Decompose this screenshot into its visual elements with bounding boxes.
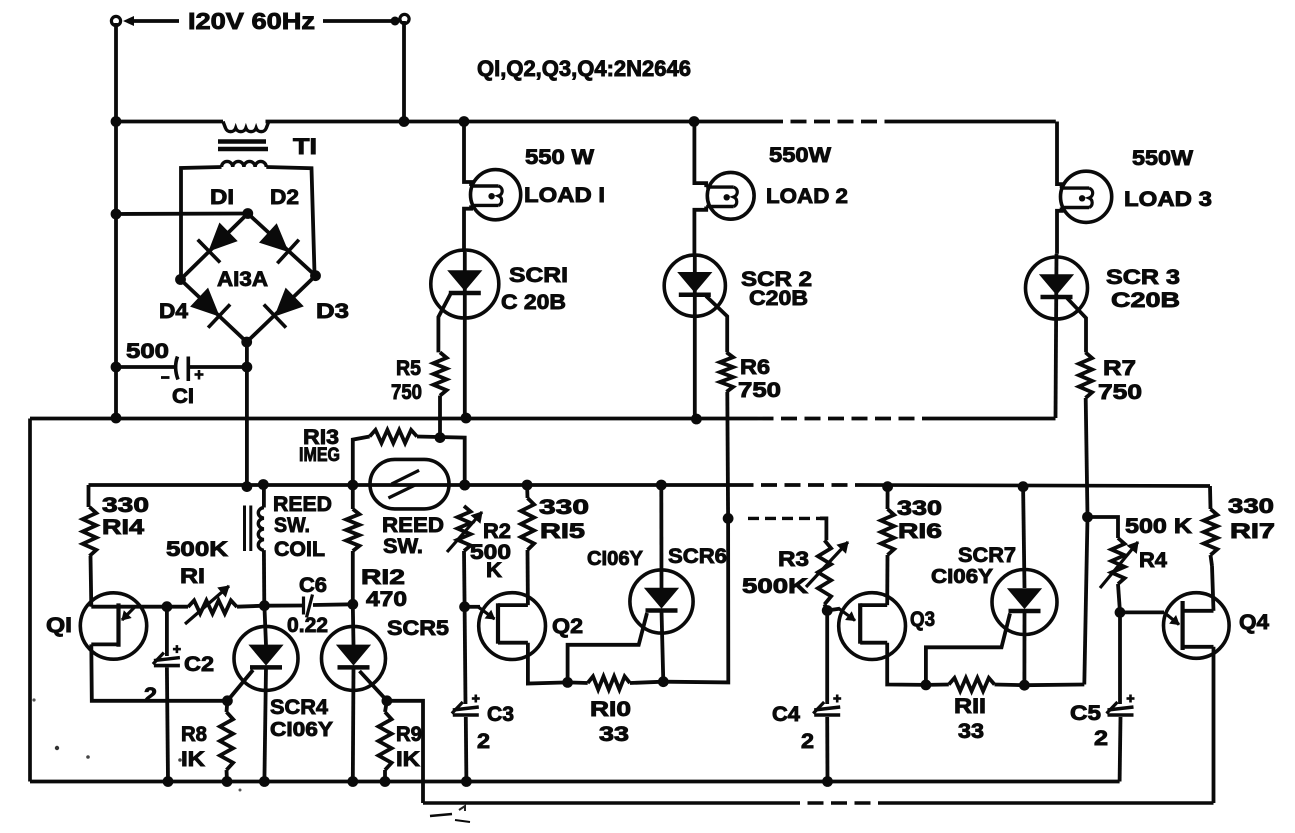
resistor R10 33 <box>568 681 588 685</box>
node: R12 bottom junction <box>347 599 358 610</box>
wire right terminal down <box>402 21 406 122</box>
wire SCR2 column to rail <box>693 255 697 419</box>
node: SCR6 anode junction <box>656 480 667 491</box>
svg-text:Q3: Q3 <box>910 608 935 631</box>
svg-text:R8: R8 <box>181 723 207 746</box>
svg-text:500 K: 500 K <box>1125 515 1192 538</box>
wire R11 to R7 column <box>1024 683 1084 688</box>
wire: main top bus center <box>266 120 768 124</box>
node: coil junction <box>258 479 269 490</box>
transistor Q4 (2N2646 UJT) <box>1164 593 1230 659</box>
node: bridge column junction at rail <box>242 481 253 492</box>
capacitor C4 <box>825 611 829 705</box>
node: R16 top junction <box>882 481 893 492</box>
svg-text:2: 2 <box>144 684 157 707</box>
svg-text:REED: REED <box>382 514 444 537</box>
SCR6 gate wire <box>568 613 647 682</box>
node: bridge right <box>310 270 321 281</box>
diode D4 <box>192 290 218 316</box>
svg-text:SCRI: SCRI <box>509 264 568 287</box>
wire SCR6 column <box>659 485 663 588</box>
svg-text:LOAD 3: LOAD 3 <box>1124 188 1212 211</box>
wire bridge arm D1 <box>181 214 248 280</box>
wire SCR4 column <box>264 606 266 645</box>
svg-text:C2: C2 <box>184 653 214 676</box>
wire left rail upper <box>114 122 118 418</box>
svg-text:2: 2 <box>801 730 814 753</box>
svg-text:RI4: RI4 <box>102 516 144 539</box>
node: R11 left junction <box>921 680 932 691</box>
SCR5 (C106Y) <box>322 626 386 690</box>
SCR4 gate wire <box>229 670 254 700</box>
wire SCR3 column to rail <box>1056 254 1057 418</box>
wire: outer box left edge <box>28 419 32 782</box>
svg-text:SW.: SW. <box>274 514 310 537</box>
svg-text:CI06Y: CI06Y <box>270 719 334 741</box>
resistor R11 33 <box>926 683 949 687</box>
svg-text:AI3A: AI3A <box>217 268 268 291</box>
node: SCR4 top junction <box>259 600 270 611</box>
resistor R8 1K <box>225 701 230 712</box>
wire R7 down to junction <box>1086 398 1088 517</box>
node: R9 top junction <box>382 695 393 706</box>
wire Q4 base1 down to bus <box>1212 647 1216 803</box>
svg-text:D3: D3 <box>316 300 349 323</box>
node: R9 bottom junction <box>380 776 391 787</box>
wire R7 junction to R4 <box>1088 517 1119 538</box>
wire left terminal down <box>114 23 118 122</box>
svg-text:C6: C6 <box>299 574 327 597</box>
wire C6 right <box>313 602 353 607</box>
capacitor C3 <box>463 607 468 704</box>
SCR4 (C106Y) <box>234 626 298 690</box>
node: bus junction left <box>111 116 122 127</box>
wire Q1 base1 down <box>91 644 227 700</box>
svg-text:R2: R2 <box>483 520 511 543</box>
node: bus junction right-terminal <box>399 116 410 127</box>
SCR3 (C20B) <box>1026 257 1088 319</box>
SCR1 (C20B) <box>431 250 499 318</box>
node: bridge bottom <box>241 337 252 348</box>
wire R1 to C6 node <box>237 606 264 607</box>
transistor Q3 (2N2646 UJT) <box>839 593 906 660</box>
wire from left terminal to 120V label <box>129 19 179 23</box>
lamp LOAD 3 <box>1061 171 1112 222</box>
wire: second bottom bus left <box>423 801 784 805</box>
wire to Q4 emitter <box>1120 611 1164 615</box>
svg-text:SCR 3: SCR 3 <box>1106 266 1180 289</box>
svg-text:SCR4: SCR4 <box>270 696 328 719</box>
transistor Q1 (2N2646 UJT) <box>80 593 146 659</box>
node: SCR5 bottom junction <box>347 776 358 787</box>
svg-text:TI: TI <box>293 134 317 159</box>
node: junction left rail C1 <box>111 362 122 373</box>
wire Q3 base1 down <box>887 643 926 685</box>
svg-text:750: 750 <box>391 381 422 404</box>
transformer T1 primary coil <box>223 122 269 132</box>
wire R7 column to R11 <box>1084 517 1087 685</box>
transformer T1 secondary coil <box>222 161 267 167</box>
node: C2 junction <box>162 601 173 612</box>
wire R9 junction to second bottom bus <box>387 701 423 803</box>
SCR2 (C20B) <box>664 255 725 316</box>
wire: second rail dashed <box>738 483 861 487</box>
wire secondary right to bridge <box>266 167 314 273</box>
resistor R7 750 <box>1079 352 1092 398</box>
resistor R13 1MEG <box>370 430 417 443</box>
resistor R17 330 <box>1204 509 1218 555</box>
SCR1 gate wire to R5 <box>438 293 451 352</box>
capacitor C5 <box>1118 612 1122 704</box>
node: AC terminal left <box>111 16 120 25</box>
svg-text:CI06Y: CI06Y <box>587 548 644 570</box>
node: R7/R4 junction <box>1082 512 1093 523</box>
wire: bridge bottom column to lower rail <box>245 367 249 487</box>
svg-text:RII: RII <box>954 695 986 718</box>
node: bus junction load1 <box>459 116 470 127</box>
wire bridge arm D2 <box>248 214 316 276</box>
wire R13 right corner <box>417 437 465 486</box>
svg-text:D2: D2 <box>270 186 299 209</box>
svg-text:C5: C5 <box>1070 702 1101 725</box>
node: SCR7 anode junction <box>1018 481 1029 492</box>
wire R13 left corner <box>353 437 370 486</box>
wire: main top bus solid left <box>116 120 223 124</box>
node: Q2 emitter junction <box>459 601 470 612</box>
wire SCR1 anode-cathode column <box>463 252 467 418</box>
capacitor C1 <box>176 357 178 380</box>
SCR5 gate wire <box>360 671 386 700</box>
wire: second bottom bus dashed <box>784 801 891 805</box>
wire rail corner into R17 <box>1208 486 1212 509</box>
svg-text:DI: DI <box>210 186 234 209</box>
wire bridge bottom down <box>245 342 249 367</box>
node: SCR4 bottom junction <box>259 776 270 787</box>
svg-text:R7: R7 <box>1103 357 1136 380</box>
node: C2 bottom rail junction <box>163 776 174 787</box>
svg-text:RI0: RI0 <box>590 698 631 721</box>
node: C3 bottom junction <box>461 776 472 787</box>
svg-text:C4: C4 <box>772 703 800 726</box>
wire: upper rail of lower section (solid left) <box>30 417 758 421</box>
wire + lamp LOAD 2 branch <box>694 122 706 188</box>
wire: second bottom bus right <box>891 801 1214 805</box>
wire: main top bus right <box>897 120 1056 124</box>
resistor R15 330 <box>525 485 529 498</box>
node: R2 top junction <box>459 480 470 491</box>
svg-text:SW.: SW. <box>383 535 423 558</box>
svg-text:330: 330 <box>102 494 149 517</box>
reed switch (oval) <box>370 459 449 509</box>
wire R5 to R13 <box>438 396 442 438</box>
wire: main top bus dashed <box>767 120 897 124</box>
svg-text:CI06Y: CI06Y <box>931 566 994 588</box>
wire: second rail left end into R14 <box>87 485 91 507</box>
wire SCR5 column <box>351 604 356 645</box>
resistor R9 1K <box>385 701 387 712</box>
SCR7 gate wire <box>926 614 1010 685</box>
svg-text:SCR6: SCR6 <box>668 545 727 568</box>
node: C5 top junction <box>1115 607 1126 618</box>
svg-text:QI,Q2,Q3,Q4:2N2646: QI,Q2,Q3,Q4:2N2646 <box>477 56 691 81</box>
SCR7 (C106Y) <box>992 570 1057 635</box>
wire: upper rail right <box>922 417 1056 421</box>
wire R14 to Q1 base2 <box>89 556 94 607</box>
wire R6 down across rail <box>725 392 730 519</box>
reed sw coil <box>262 485 266 508</box>
svg-text:500K: 500K <box>166 538 228 561</box>
svg-text:LOAD I: LOAD I <box>524 184 605 207</box>
node: junction at right terminal <box>391 17 400 26</box>
wire C1 right <box>188 365 247 369</box>
wire Q2 base1 down <box>528 643 568 684</box>
svg-text:2: 2 <box>1094 727 1108 750</box>
svg-text:330: 330 <box>539 496 589 519</box>
node: reed loop left junction <box>347 480 358 491</box>
potentiometer R4 500K <box>1111 538 1124 584</box>
node: R10 left junction <box>562 677 573 688</box>
svg-text:CI: CI <box>172 385 194 408</box>
svg-text:COIL: COIL <box>274 538 325 561</box>
svg-text:330: 330 <box>897 497 942 520</box>
svg-text:750: 750 <box>738 379 781 402</box>
wire R6 column bottom corner <box>663 518 728 682</box>
svg-text:550 W: 550 W <box>525 146 594 169</box>
node: R13/R5 junction <box>435 432 446 443</box>
wire C2 node to R1 <box>167 605 188 609</box>
svg-text:R9: R9 <box>396 723 422 746</box>
svg-text:RI2: RI2 <box>361 566 405 589</box>
wire bridge arm D4 <box>181 280 247 343</box>
svg-text:IK: IK <box>181 748 205 771</box>
wire Q1 emitter to C2 node <box>119 605 167 609</box>
wire + lamp LOAD 1 branch <box>464 122 471 187</box>
node: AC terminal right <box>400 14 409 23</box>
node: R6/R3 junction <box>723 513 734 524</box>
svg-text:K: K <box>486 559 502 582</box>
potentiometer R1 500K <box>188 600 237 613</box>
svg-text:RI5: RI5 <box>540 520 585 543</box>
wire Q2 emitter <box>465 605 480 609</box>
transformer T1 core <box>218 139 266 143</box>
svg-text:330: 330 <box>1228 495 1274 518</box>
diode D1 <box>210 224 236 250</box>
wire: second rail solid left <box>89 483 738 487</box>
wire + lamp LOAD 3 branch <box>1057 122 1062 189</box>
wire SCR7 column <box>1023 487 1024 588</box>
svg-text:500: 500 <box>126 340 169 363</box>
wire C1 left <box>116 365 176 369</box>
node: C1 right junction <box>242 362 253 373</box>
svg-text:R4: R4 <box>1139 549 1167 572</box>
wire: DC output top node to left rail <box>116 212 248 216</box>
svg-text:R3: R3 <box>778 548 809 571</box>
svg-text:IK: IK <box>396 748 420 771</box>
svg-text:R5: R5 <box>396 357 421 380</box>
svg-text:REED: REED <box>273 493 332 516</box>
svg-text:C20B: C20B <box>1111 289 1180 312</box>
svg-text:RI7: RI7 <box>1230 520 1275 543</box>
diode D3 <box>276 289 302 315</box>
svg-text:33: 33 <box>958 720 984 743</box>
node: bus junction load2 <box>689 116 700 127</box>
svg-text:Q4: Q4 <box>1239 611 1269 634</box>
SCR2 gate wire to R6 <box>706 296 727 352</box>
node: R10 right junction <box>658 676 669 687</box>
svg-text:RI6: RI6 <box>898 520 942 543</box>
svg-text:C20B: C20B <box>749 287 808 310</box>
svg-text:550W: 550W <box>769 144 831 167</box>
diode D2 <box>261 225 287 250</box>
svg-text:2: 2 <box>477 730 490 753</box>
SCR6 (C106Y) <box>630 570 693 633</box>
resistor R14 330 <box>83 507 97 556</box>
node: reed loop right junction <box>459 480 470 491</box>
potentiometer R2 500K <box>457 506 470 551</box>
capacitor C6 <box>302 597 305 615</box>
node: R11 right junction <box>1019 680 1030 691</box>
resistor R6 750 <box>720 352 733 392</box>
svg-text:33: 33 <box>599 723 629 746</box>
transistor Q2 (2N2646 UJT) <box>479 593 546 660</box>
wire: bottom rail <box>30 780 1120 784</box>
SCR3 gate wire to R7 <box>1067 298 1086 352</box>
svg-text:0.22: 0.22 <box>287 614 328 637</box>
svg-text:LOAD 2: LOAD 2 <box>766 185 848 208</box>
node: bridge top <box>242 208 253 219</box>
resistor R12 470 <box>351 485 355 509</box>
resistor R16 330 <box>886 487 890 509</box>
svg-text:C3: C3 <box>487 703 514 726</box>
svg-text:550W: 550W <box>1132 147 1193 170</box>
wire: second rail right <box>860 485 1210 486</box>
wire Q4 base2 up to R17 <box>1212 566 1214 611</box>
wire: upper rail dashed <box>758 417 923 421</box>
node: Q3 emitter junction <box>822 605 833 616</box>
svg-text:Q2: Q2 <box>552 615 583 638</box>
node: R8 top junction <box>222 695 233 706</box>
node: R8 bottom junction <box>222 776 233 787</box>
wire C6 left <box>264 604 302 608</box>
svg-text:C 20B: C 20B <box>501 291 566 314</box>
node: rail junction left edge <box>111 413 122 424</box>
svg-text:SCR5: SCR5 <box>387 617 449 640</box>
resistor R5 750 <box>433 352 446 395</box>
lamp LOAD 1 <box>471 170 521 220</box>
svg-text:470: 470 <box>366 588 407 611</box>
wire dashed to R3 <box>748 517 820 520</box>
svg-text:D4: D4 <box>159 300 188 323</box>
svg-text:RI: RI <box>180 565 205 588</box>
reed sw coil core <box>243 506 246 552</box>
svg-text:500K: 500K <box>742 575 808 598</box>
lamp LOAD 2 <box>707 172 754 219</box>
node: R15 top junction <box>522 480 533 491</box>
node: bridge left <box>175 274 186 285</box>
potentiometer R3 500K <box>818 540 831 604</box>
capacitor C2 <box>165 609 169 656</box>
svg-text:R6: R6 <box>740 356 770 379</box>
svg-text:QI: QI <box>46 614 72 637</box>
svg-text:SCR7: SCR7 <box>958 544 1016 567</box>
wire bridge arm D3 <box>247 276 316 342</box>
svg-text:IMEG: IMEG <box>299 445 340 466</box>
svg-text:I20V 60Hz: I20V 60Hz <box>188 8 315 34</box>
wire from label to right terminal <box>323 19 396 23</box>
wire secondary left to bridge <box>181 167 222 277</box>
wire Q3 emitter <box>827 609 840 611</box>
node: C4 bottom junction <box>822 776 833 787</box>
svg-text:750: 750 <box>1098 381 1142 404</box>
node: junction left rail mid <box>111 209 122 220</box>
